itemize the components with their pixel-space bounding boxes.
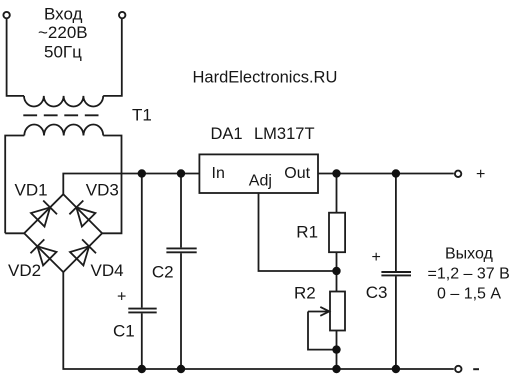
svg-text:VD4: VD4 bbox=[91, 261, 124, 280]
svg-text:VD2: VD2 bbox=[8, 261, 41, 280]
svg-text:C1: C1 bbox=[113, 321, 135, 340]
svg-text:R1: R1 bbox=[296, 222, 318, 241]
svg-text:C3: C3 bbox=[366, 283, 388, 302]
svg-text:+: + bbox=[372, 249, 381, 266]
svg-text:C2: C2 bbox=[152, 262, 174, 281]
svg-text:VD3: VD3 bbox=[86, 180, 119, 199]
svg-text:=1,2 – 37 В: =1,2 – 37 В bbox=[428, 266, 510, 283]
svg-text:50Гц: 50Гц bbox=[44, 43, 82, 62]
svg-text:Вход: Вход bbox=[44, 5, 83, 24]
svg-text:Adj: Adj bbox=[249, 173, 272, 190]
svg-text:LM317T: LM317T bbox=[254, 125, 315, 143]
svg-text:DA1: DA1 bbox=[211, 125, 243, 143]
svg-text:Выход: Выход bbox=[445, 246, 494, 263]
svg-text:VD1: VD1 bbox=[15, 180, 48, 199]
svg-text:+: + bbox=[476, 166, 485, 183]
svg-text:~220В: ~220В bbox=[38, 23, 88, 42]
svg-text:0 – 1,5 А: 0 – 1,5 А bbox=[437, 286, 501, 303]
svg-text:R2: R2 bbox=[294, 284, 316, 303]
svg-text:Out: Out bbox=[284, 165, 310, 182]
svg-text:HardElectronics.RU: HardElectronics.RU bbox=[193, 68, 338, 86]
svg-text:T1: T1 bbox=[132, 106, 152, 125]
svg-text:In: In bbox=[212, 165, 225, 182]
svg-text:+: + bbox=[117, 289, 126, 306]
